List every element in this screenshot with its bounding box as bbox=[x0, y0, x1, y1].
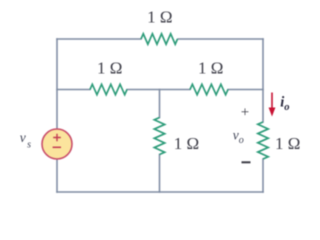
resistor R-midleft zigzag (1 ohm, middle row left) bbox=[90, 84, 127, 94]
voltage source vs circle bbox=[42, 129, 72, 159]
voltage source plus sign bbox=[53, 134, 61, 142]
svg-text:1 Ω: 1 Ω bbox=[97, 59, 122, 78]
wire left vertical upper bbox=[56, 39, 58, 130]
wire middle row center bbox=[127, 89, 190, 91]
svg-text:1 Ω: 1 Ω bbox=[174, 134, 199, 153]
wire middle row left bbox=[57, 89, 90, 91]
resistor R-midvert zigzag (1 ohm, middle vertical) bbox=[154, 118, 164, 155]
svg-text:vs: vs bbox=[20, 130, 31, 151]
current io arrow (red, pointing down) bbox=[271, 93, 273, 109]
svg-text:1 Ω: 1 Ω bbox=[147, 7, 172, 26]
wire bottom bbox=[57, 191, 263, 193]
minus sign of vo bbox=[242, 161, 251, 163]
resistor R-right zigzag (1 ohm, right vertical) bbox=[258, 122, 268, 159]
wire right vertical lower bbox=[262, 159, 264, 192]
wire middle vertical upper stub bbox=[159, 90, 161, 118]
wire left vertical lower bbox=[56, 159, 58, 193]
svg-text:1 Ω: 1 Ω bbox=[275, 134, 300, 153]
wire top-left to top resistor bbox=[57, 38, 141, 40]
wire middle vertical lower bbox=[159, 155, 161, 193]
svg-text:1 Ω: 1 Ω bbox=[198, 59, 223, 78]
resistor R-midright zigzag (1 ohm, middle row right) bbox=[190, 84, 228, 94]
svg-text:vo: vo bbox=[233, 128, 244, 147]
svg-text:io: io bbox=[280, 94, 289, 113]
resistor R-top zigzag (1 ohm, top branch) bbox=[141, 34, 178, 44]
svg-text:+: + bbox=[241, 105, 249, 121]
wire middle row right bbox=[228, 89, 263, 91]
wire top resistor to top-right corner bbox=[178, 38, 263, 40]
wire right vertical upper bbox=[262, 39, 264, 122]
voltage source minus sign bbox=[53, 146, 61, 148]
